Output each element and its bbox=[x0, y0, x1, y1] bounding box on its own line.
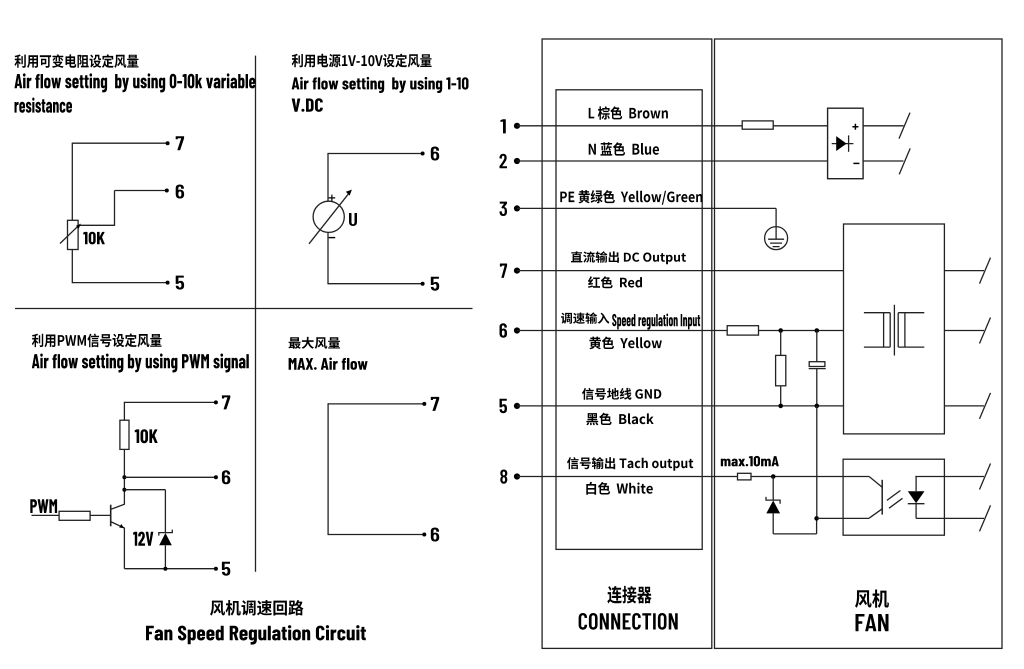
label red wire bbox=[588, 276, 642, 288]
wire pin6 horizontal bbox=[328, 153, 422, 155]
connection column outer box bbox=[542, 39, 712, 648]
pin number 6 bbox=[222, 470, 230, 484]
resistor on tach line bbox=[738, 473, 752, 480]
wire pin5 horizontal bbox=[328, 283, 422, 285]
label 10K (potentiometer) bbox=[83, 232, 105, 245]
wire DC output line (pin7) bbox=[517, 270, 844, 272]
label connector CN bbox=[607, 586, 651, 604]
wire L line to rectifier bbox=[773, 125, 827, 127]
opto LED top wire bbox=[915, 476, 944, 478]
label signal ground GND bbox=[582, 388, 661, 400]
zener diode 12V triangle bbox=[159, 533, 172, 545]
transistor emitter arrowhead bbox=[119, 524, 124, 528]
transistor emitter lead bbox=[111, 522, 125, 528]
pin number 7 bbox=[222, 395, 230, 409]
label yellow wire bbox=[589, 337, 662, 350]
wire opto top stub to terminal bbox=[944, 476, 984, 478]
capacitor bottom plate bbox=[809, 368, 826, 370]
junction opto return node bbox=[814, 516, 819, 521]
label - (rectifier negative) bbox=[853, 162, 859, 164]
bridge rectifier box bbox=[828, 108, 864, 179]
title EN line2 bbox=[15, 98, 73, 113]
potentiometer wiper arrowhead bbox=[76, 224, 81, 229]
pin number 1 bbox=[500, 119, 505, 133]
wire speed-input to fan box bbox=[759, 330, 844, 332]
resistor bottom lead bbox=[780, 386, 782, 406]
wire pin6 horizontal bbox=[124, 476, 215, 478]
potentiometer wiper arrow shaft bbox=[60, 226, 78, 243]
label U (voltage source) bbox=[349, 213, 357, 226]
transistor Q1 base bar bbox=[110, 505, 112, 527]
pin number 6 bbox=[176, 185, 184, 199]
resistor top lead bbox=[780, 331, 782, 356]
wiper tap horizontal bbox=[80, 224, 115, 226]
bridge diode lead bbox=[832, 143, 854, 145]
title EN line2 bbox=[292, 98, 323, 112]
node pin6 terminal bbox=[214, 475, 218, 479]
wire resistor top vertical bbox=[123, 402, 125, 420]
wire pin6 horizontal bbox=[115, 190, 167, 192]
label L brown wire bbox=[589, 106, 668, 119]
zener bottom vertical bbox=[164, 545, 166, 569]
capacitor top plate bbox=[809, 362, 825, 367]
opto LED cathode bar bbox=[908, 503, 925, 505]
wire tach line (pin8) bbox=[517, 476, 738, 478]
wire DC output stub to terminal bbox=[944, 270, 984, 272]
opto phototransistor base bar bbox=[881, 480, 883, 515]
junction tach line / zener bbox=[771, 474, 776, 479]
node pin5 terminal bbox=[166, 281, 170, 285]
zener return up to node bbox=[816, 518, 818, 534]
capacitor top lead bbox=[816, 331, 818, 362]
pin number 5 bbox=[222, 562, 230, 576]
wire speed-input stub to terminal bbox=[944, 330, 984, 332]
wire source bottom vertical bbox=[327, 232, 329, 284]
zener diode (tach clamp) cathode bar bbox=[766, 497, 780, 504]
bridge diode cathode bar bbox=[848, 135, 850, 151]
voltage source arrow shaft bbox=[309, 194, 348, 244]
wire source top vertical bbox=[327, 153, 329, 202]
zener return horizontal bbox=[773, 533, 816, 535]
pin number 5 bbox=[176, 276, 184, 290]
title CN: 1V-10V airflow setting bbox=[292, 54, 432, 68]
continuation slash tach + bbox=[980, 464, 991, 490]
node pin 7 terminal bbox=[514, 268, 520, 274]
PWM input wire bbox=[32, 514, 60, 516]
wire tach to opto bbox=[751, 476, 869, 478]
label DC output bbox=[571, 251, 686, 264]
pin number 8 bbox=[500, 470, 507, 484]
label white wire bbox=[586, 482, 653, 495]
node pin6 terminal bbox=[165, 189, 169, 193]
wire to zener top bbox=[124, 489, 165, 491]
emitter vertical bbox=[123, 528, 125, 569]
pin number 6 bbox=[431, 528, 439, 542]
wire pin7 horizontal bbox=[72, 142, 167, 144]
transistor collector lead bbox=[111, 504, 125, 509]
junction speed line / resistor bbox=[778, 328, 783, 333]
wire GND stub to terminal bbox=[944, 405, 984, 407]
title EN bbox=[289, 358, 368, 370]
opto phototransistor collector lead bbox=[869, 477, 882, 488]
node pin 6 terminal bbox=[514, 327, 520, 333]
zener top vertical bbox=[164, 490, 166, 533]
caption CN: fan speed regulation circuit bbox=[210, 600, 304, 616]
wire GND line (pin5) bbox=[517, 405, 844, 407]
caption EN: Fan Speed Regulation Circuit bbox=[146, 625, 366, 645]
junction collector node lower bbox=[122, 488, 126, 492]
pin number 3 bbox=[500, 202, 508, 216]
label speed regulation input CN bbox=[561, 312, 609, 323]
pin number 7 bbox=[431, 397, 439, 411]
wiper tap vertical bbox=[114, 191, 116, 226]
title EN line1 bbox=[15, 73, 256, 92]
continuation slash - output bbox=[899, 148, 910, 174]
continuation slash DC output bbox=[980, 258, 991, 284]
wire opto emitter return bbox=[817, 517, 870, 519]
pin number 7 bbox=[500, 264, 507, 278]
node pin 8 terminal bbox=[514, 473, 520, 479]
node pin5 terminal bbox=[421, 282, 425, 286]
title CN: variable-resistor airflow setting bbox=[15, 54, 139, 68]
opto LED triangle bbox=[908, 491, 925, 503]
wire pin5 horizontal bbox=[124, 568, 215, 570]
wire pin6 horizontal bbox=[328, 534, 423, 536]
wire speed-input line (pin6) bbox=[517, 330, 727, 332]
opto LED anode lead bbox=[915, 477, 917, 492]
zener diode 12V cathode bar bbox=[159, 530, 173, 536]
node pin 2 terminal bbox=[514, 158, 520, 164]
label + polarity bbox=[329, 195, 336, 202]
voltage source U circle bbox=[313, 201, 344, 232]
voltage source arrowhead bbox=[346, 190, 352, 196]
divider between upper and lower quadrants bbox=[15, 308, 473, 310]
label speed regulation input EN bbox=[612, 314, 700, 330]
node pin6 terminal bbox=[421, 152, 425, 156]
node pin7 terminal bbox=[166, 141, 170, 145]
opto light ray 1 bbox=[887, 491, 901, 501]
node pin7 terminal bbox=[422, 402, 426, 406]
title EN line1 bbox=[292, 77, 469, 93]
wire L line (pin1) bbox=[517, 125, 742, 127]
continuation slash tach - bbox=[980, 505, 991, 531]
wire PE line (pin3) bbox=[517, 207, 776, 209]
pin number 2 bbox=[500, 154, 508, 168]
opto light ray 2 bbox=[889, 498, 903, 508]
motor winding symbol bbox=[864, 305, 924, 356]
opto LED bottom wire bbox=[916, 517, 944, 519]
title EN bbox=[32, 354, 249, 373]
protective earth symbol bars bbox=[768, 227, 784, 247]
resistor on L line bbox=[742, 121, 773, 129]
continuation slash GND bbox=[980, 393, 991, 419]
label N blue wire bbox=[589, 142, 659, 156]
junction speed line / capacitor bbox=[815, 328, 820, 333]
pin number 7 bbox=[176, 136, 184, 150]
wire pin5 horizontal bbox=[72, 282, 167, 284]
protective earth symbol circle bbox=[765, 227, 788, 250]
divider between left and right quadrants bbox=[255, 56, 257, 572]
label fan CN bbox=[855, 590, 889, 608]
wire N line (pin2) bbox=[517, 160, 828, 162]
zener top lead bbox=[772, 477, 774, 501]
label PWM bbox=[30, 499, 57, 513]
continuation slash + output bbox=[899, 113, 910, 139]
label FAN bbox=[856, 614, 889, 631]
node pin 5 terminal bbox=[514, 403, 520, 409]
wire pot top vertical bbox=[71, 143, 73, 221]
wire opto bottom stub to terminal bbox=[944, 517, 984, 519]
resistor body (to GND) bbox=[776, 355, 786, 385]
bridge diode triangle bbox=[836, 136, 846, 151]
wire PE down to earth bbox=[775, 208, 777, 227]
label max.10mA bbox=[721, 456, 779, 467]
wire vertical link bbox=[327, 403, 329, 535]
zener diode (tach clamp) triangle bbox=[766, 501, 780, 514]
label + (rectifier positive) bbox=[852, 124, 858, 130]
resistor on speed-input line bbox=[727, 326, 758, 335]
pin number 5 bbox=[500, 399, 508, 413]
wire resistor bottom vertical bbox=[123, 449, 125, 504]
wire pin7 horizontal bbox=[328, 403, 423, 405]
wire pin7 horizontal bbox=[124, 401, 215, 403]
capacitor bottom lead bbox=[816, 369, 818, 406]
wire rectifier + output bbox=[863, 125, 903, 127]
junction collector node upper bbox=[122, 475, 126, 479]
node pin5 terminal bbox=[214, 567, 218, 571]
pin number 6 bbox=[431, 147, 439, 161]
pin number 5 bbox=[431, 277, 439, 291]
opto phototransistor emitter lead bbox=[869, 509, 882, 518]
node pin 1 terminal bbox=[514, 123, 520, 129]
resistor 10K body bbox=[120, 420, 129, 449]
junction GND line / resistor bbox=[778, 404, 783, 409]
potentiometer 10K body bbox=[68, 220, 79, 249]
label 10K (resistor) bbox=[135, 429, 158, 443]
base resistor body bbox=[59, 511, 90, 520]
label CONNECTION bbox=[579, 613, 678, 630]
node pin6 terminal bbox=[422, 533, 426, 537]
base wire bbox=[90, 514, 111, 516]
zener bottom lead bbox=[772, 513, 774, 534]
wire pot bottom vertical bbox=[71, 250, 73, 284]
opto LED cathode lead bbox=[915, 504, 917, 519]
title CN: PWM airflow setting bbox=[32, 333, 162, 347]
junction GND line / capacitor bbox=[815, 404, 820, 409]
label - polarity bbox=[329, 237, 336, 239]
pin number 6 bbox=[500, 323, 508, 337]
label PE yellow/green wire bbox=[560, 190, 702, 205]
node pin7 terminal bbox=[214, 400, 218, 404]
connector inner box bbox=[556, 90, 702, 550]
fan column outer box bbox=[715, 39, 1003, 648]
label black wire bbox=[586, 413, 653, 426]
continuation slash speed input bbox=[980, 318, 991, 344]
wire rectifier - output bbox=[863, 160, 903, 162]
junction zener-emitter node bbox=[163, 567, 167, 571]
fan motor box bbox=[844, 224, 945, 434]
title CN: max airflow bbox=[289, 337, 341, 349]
label tach output bbox=[567, 457, 693, 471]
label 12V bbox=[133, 532, 153, 546]
node pin 3 terminal bbox=[514, 205, 520, 211]
wire GND down to opto return bbox=[816, 406, 818, 519]
optocoupler box bbox=[843, 459, 944, 535]
